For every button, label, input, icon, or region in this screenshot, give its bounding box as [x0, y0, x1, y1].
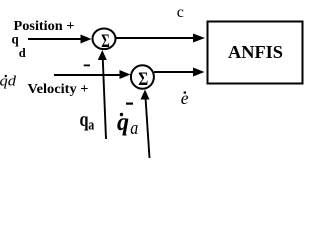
svg-text:Σ: Σ	[101, 31, 110, 52]
svg-text:qd: qd	[0, 74, 17, 90]
svg-text:q: q	[12, 33, 19, 48]
svg-text:d: d	[19, 46, 26, 60]
svg-text:ANFIS: ANFIS	[228, 42, 283, 62]
svg-text:q: q	[117, 109, 129, 136]
svg-text:Σ: Σ	[138, 69, 148, 90]
svg-text:c: c	[177, 4, 184, 21]
svg-text:a: a	[88, 118, 94, 134]
svg-text:q: q	[80, 109, 89, 131]
svg-text:a: a	[130, 118, 138, 139]
svg-text:Position +: Position +	[14, 19, 75, 34]
svg-text:e: e	[181, 88, 189, 108]
svg-text:Velocity +: Velocity +	[28, 82, 89, 97]
